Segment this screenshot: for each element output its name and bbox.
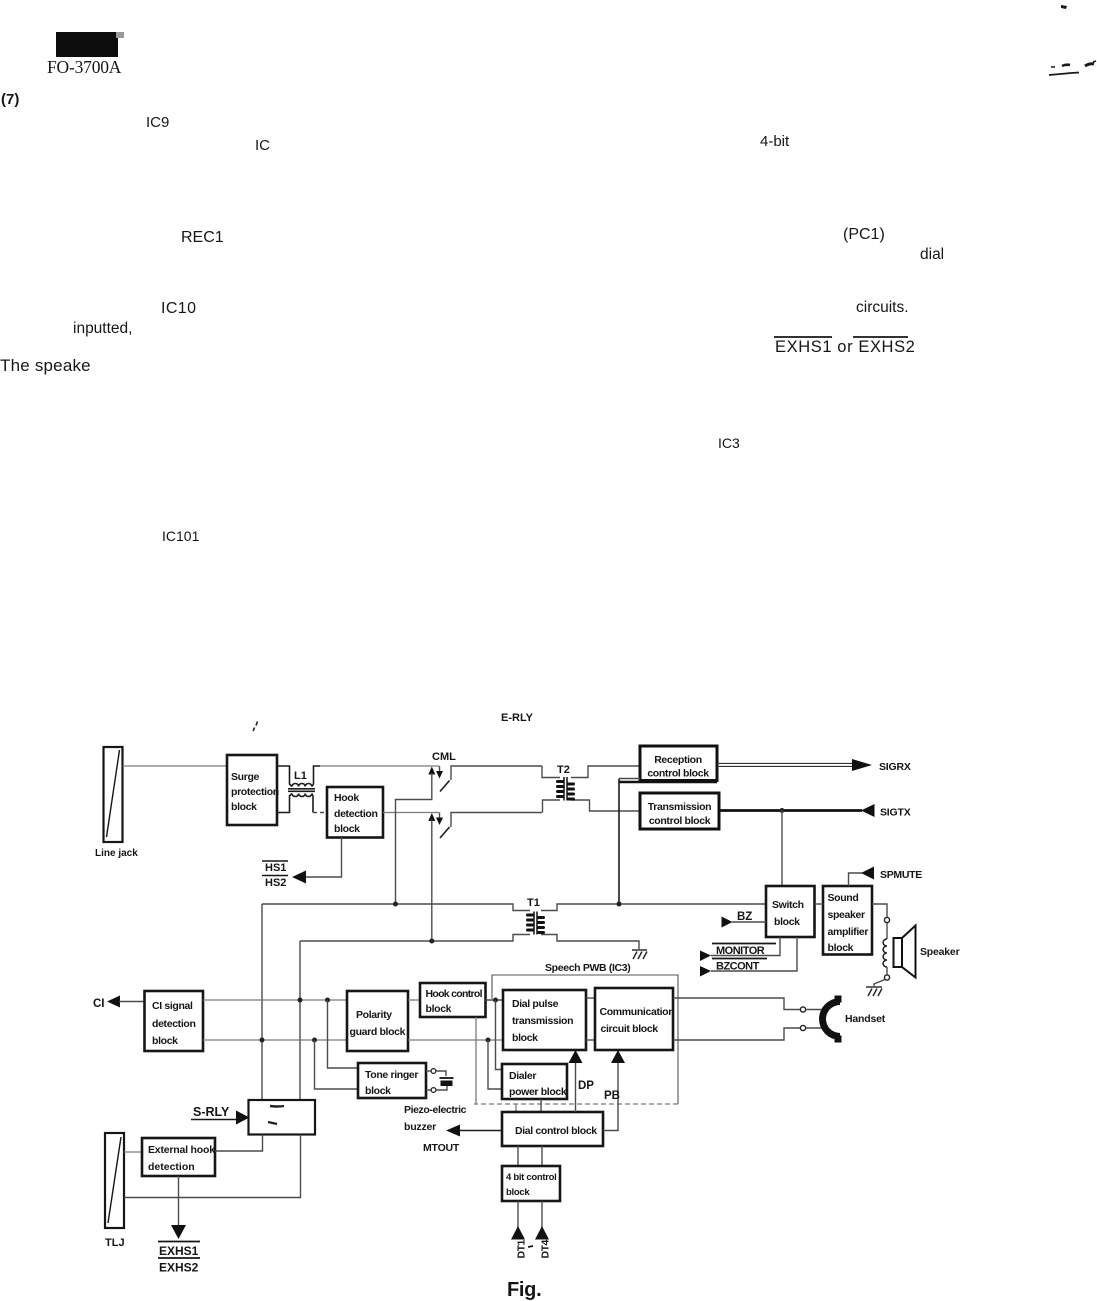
- svg-text:T1: T1: [527, 897, 540, 909]
- piezo-electric buzzer BZ1: [404, 1069, 467, 1133]
- redaction block: [56, 32, 124, 57]
- junction lower rail to tone ringer drop: [312, 1038, 317, 1043]
- svg-text:Dial pulse: Dial pulse: [512, 998, 559, 1010]
- reception control block: [640, 746, 717, 781]
- svg-text:Reception: Reception: [654, 754, 702, 766]
- dial control block: [502, 1112, 603, 1146]
- net BZCONT input: [700, 937, 797, 977]
- svg-text:4-bit: 4-bit: [760, 133, 790, 150]
- junction on SIGTX line: [780, 808, 785, 813]
- svg-text:Switch: Switch: [772, 899, 804, 911]
- svg-text:EXHS2: EXHS2: [159, 1261, 199, 1275]
- net PB dial control to communication block: [603, 1050, 625, 1131]
- line jack: [104, 747, 123, 842]
- transmission control block: [640, 793, 719, 829]
- wire vertical from reception down to T1 rail: [618, 779, 620, 905]
- svg-text:IC10: IC10: [161, 300, 196, 317]
- net DT4 input: [535, 1201, 552, 1259]
- svg-text:block: block: [828, 942, 854, 954]
- CML switch upper: [396, 766, 543, 904]
- svg-text:block: block: [506, 1187, 530, 1198]
- Speech PWB boundary: [474, 975, 678, 1104]
- svg-text:Dial control block: Dial control block: [515, 1125, 597, 1137]
- svg-text:CI: CI: [93, 998, 105, 1010]
- surge protection block: [227, 755, 279, 825]
- svg-text:IC9: IC9: [146, 114, 169, 131]
- svg-text:REC1: REC1: [181, 229, 224, 246]
- svg-text:block: block: [426, 1003, 452, 1015]
- wire upper rail CI to polarity guard: [203, 999, 347, 1001]
- net SIGRX output line: [717, 759, 911, 773]
- svg-text:HS2: HS2: [265, 877, 286, 889]
- hook detection block: [327, 787, 383, 838]
- scan speck top right: [1061, 5, 1067, 9]
- svg-text:control block: control block: [647, 768, 709, 780]
- svg-text:Fig.: Fig.: [507, 1279, 541, 1301]
- junction upper rail at relay drop: [298, 998, 303, 1003]
- svg-text:Communication: Communication: [600, 1006, 675, 1018]
- transformer T2: [542, 764, 640, 813]
- svg-text:Transmission: Transmission: [648, 801, 712, 813]
- svg-text:guard block: guard block: [350, 1026, 406, 1038]
- net DT1 input: [511, 1201, 528, 1259]
- wire hook detection to CML lower switch: [383, 812, 439, 814]
- wire surge lower rail to hook detection (dashed scan): [313, 812, 327, 814]
- tone ringer block: [358, 1063, 426, 1098]
- hook control block: [420, 983, 486, 1017]
- wire dialer power to dial control: [540, 1099, 542, 1112]
- svg-text:BZ: BZ: [737, 911, 752, 923]
- wire stub PWB boundary to dial control: [515, 1104, 517, 1112]
- svg-text:The speake: The speake: [0, 356, 91, 375]
- 4 bit control block: [502, 1146, 560, 1201]
- wire T1 bottom-left corner down to S-RLY relay: [299, 941, 301, 1100]
- transformer T1: [262, 897, 766, 949]
- wire lower rail down to tone ringer bottom input: [315, 1040, 359, 1089]
- svg-text:External hook: External hook: [148, 1144, 215, 1156]
- sound speaker amplifier block: [823, 886, 872, 955]
- svg-text:DP: DP: [578, 1080, 594, 1092]
- CML switch lower: [428, 813, 542, 942]
- junction CML lower arm on T1 bottom rail: [429, 939, 434, 944]
- svg-text:PB: PB: [604, 1090, 620, 1102]
- wire TLJ to external hook detection: [124, 1151, 142, 1153]
- svg-text:Polarity: Polarity: [356, 1009, 392, 1021]
- ground below speaker: [866, 987, 882, 996]
- svg-text:block: block: [774, 916, 800, 928]
- svg-text:(PC1): (PC1): [843, 226, 885, 243]
- handset: [819, 996, 886, 1043]
- communication circuit block: [595, 988, 674, 1050]
- wire external hook detection to relay: [215, 1135, 263, 1152]
- svg-text:block: block: [512, 1032, 538, 1044]
- wire dial pulse to communication upper: [586, 997, 595, 999]
- wire relay return loop to TLJ: [124, 1135, 301, 1198]
- ground at T1 secondary: [632, 950, 647, 959]
- telephone line jack TLJ: [105, 1133, 125, 1249]
- scan squiggle right margin: [1049, 61, 1096, 75]
- external hook detection block: [142, 1138, 215, 1176]
- dash between DT1 and DT4: [528, 1246, 533, 1247]
- wire reception bottom stub to node: [619, 779, 717, 783]
- wire polarity to hook control: [408, 999, 420, 1001]
- junction CML upper arm on T1 top rail: [393, 902, 398, 907]
- wire lower rail CI to polarity guard: [203, 1039, 347, 1041]
- switch block: [766, 886, 815, 937]
- wire upper rail down to tone ringer top input: [328, 1000, 359, 1068]
- svg-text:Sound: Sound: [828, 892, 859, 904]
- net DP dial control to dial pulse block: [569, 1050, 595, 1112]
- svg-text:circuits.: circuits.: [856, 299, 909, 316]
- svg-text:Line jack: Line jack: [95, 848, 138, 859]
- net BZ input: [722, 911, 767, 928]
- svg-text:IC3: IC3: [718, 435, 740, 451]
- net MONITOR input: [700, 937, 780, 961]
- svg-text:circuit block: circuit block: [601, 1023, 659, 1035]
- svg-text:Speech PWB (IC3): Speech PWB (IC3): [545, 962, 630, 974]
- node CI with arrow: [93, 996, 145, 1011]
- svg-text:detection: detection: [148, 1161, 195, 1173]
- wire handset ring line from communication: [673, 1025, 823, 1040]
- dialer power block: [502, 1064, 567, 1099]
- wire switch block to sound amplifier: [815, 903, 824, 905]
- svg-text:dial: dial: [920, 246, 944, 263]
- svg-text:Dialer: Dialer: [509, 1070, 536, 1082]
- svg-text:amplifier: amplifier: [828, 926, 869, 938]
- net names EXHS1 or EXHS2: [774, 337, 915, 356]
- svg-text:TLJ: TLJ: [105, 1237, 125, 1249]
- net EXHS1 / EXHS2 output: [158, 1176, 200, 1275]
- svg-text:MTOUT: MTOUT: [423, 1142, 460, 1154]
- junction upper rail to tone ringer drop: [325, 998, 330, 1003]
- svg-text:DT4: DT4: [540, 1240, 552, 1259]
- wire line jack to surge protection: [123, 765, 228, 767]
- wire dial pulse to communication lower: [586, 1039, 595, 1041]
- wire L1 to CML upper switch: [320, 765, 439, 767]
- polarity guard block: [347, 991, 408, 1051]
- svg-text:SIGTX: SIGTX: [880, 807, 911, 819]
- dial pulse transmission block: [503, 990, 586, 1050]
- svg-text:Tone ringer: Tone ringer: [365, 1069, 418, 1081]
- wire hook control to dial pulse transmission: [486, 999, 504, 1001]
- svg-text:IC: IC: [255, 137, 270, 154]
- net SPMUTE input: [849, 867, 923, 887]
- net S-RLY control: [191, 1105, 250, 1125]
- junction lower rail at relay drop: [260, 1038, 265, 1043]
- wire drop hook control rail to dialer power top input: [496, 1000, 503, 1070]
- svg-text:CI signal: CI signal: [152, 1000, 193, 1012]
- svg-text:(7): (7): [1, 91, 19, 108]
- junction hook control output: [493, 998, 498, 1003]
- svg-text:EXHS1: EXHS1: [159, 1244, 199, 1258]
- svg-text:detection: detection: [334, 808, 378, 820]
- net HS1 / HS2 with arrow from hook detection: [262, 838, 342, 890]
- wire polarity lower rail to dial pulse: [408, 1039, 503, 1041]
- svg-text:block: block: [334, 823, 360, 835]
- svg-text:buzzer: buzzer: [404, 1121, 436, 1133]
- svg-text:SIGRX: SIGRX: [879, 761, 911, 773]
- svg-text:HS1: HS1: [265, 862, 286, 874]
- svg-text:speaker: speaker: [828, 909, 866, 921]
- svg-text:block: block: [365, 1085, 391, 1097]
- wire hook control block down to PWB boundary: [475, 1017, 477, 1104]
- svg-text:detection: detection: [152, 1018, 196, 1030]
- svg-text:Piezo-electric: Piezo-electric: [404, 1104, 467, 1116]
- svg-text:inputted,: inputted,: [73, 320, 132, 337]
- svg-text:E-RLY: E-RLY: [501, 712, 534, 724]
- svg-text:Hook control: Hook control: [426, 988, 483, 1000]
- svg-text:CML: CML: [432, 751, 456, 763]
- svg-text:Speaker: Speaker: [920, 946, 960, 958]
- svg-text:DT1: DT1: [516, 1240, 528, 1259]
- speaker terminals and voice coil: [872, 904, 890, 986]
- svg-text:power block: power block: [509, 1086, 567, 1098]
- svg-text:SPMUTE: SPMUTE: [880, 869, 922, 881]
- svg-text:transmission: transmission: [512, 1015, 573, 1027]
- svg-text:block: block: [152, 1035, 178, 1047]
- junction lower rail to dialer power drop: [486, 1038, 491, 1043]
- svg-text:S-RLY: S-RLY: [193, 1105, 230, 1119]
- wire handset tip line from communication: [673, 998, 823, 1012]
- CI signal detection block: [145, 991, 204, 1051]
- net MTOUT output: [423, 1125, 502, 1155]
- wire T1 top-left corner down to S-RLY relay: [261, 904, 263, 1100]
- svg-text:protection: protection: [231, 786, 279, 798]
- junction reception arm on T1 top rail: [617, 902, 622, 907]
- net SIGTX input line: [719, 804, 911, 819]
- inductor L1: [277, 766, 320, 813]
- svg-text:block: block: [231, 801, 257, 813]
- svg-text:L1: L1: [294, 770, 307, 782]
- svg-text:Handset: Handset: [845, 1013, 886, 1025]
- svg-text:FO-3700A: FO-3700A: [47, 57, 122, 77]
- relay S-RLY box: [249, 1100, 316, 1135]
- svg-text:control block: control block: [649, 815, 711, 827]
- svg-text:T2: T2: [557, 764, 570, 776]
- wire drop lower rail to dialer power bottom input: [488, 1040, 502, 1089]
- speaker SP1: [894, 926, 960, 978]
- svg-text:4 bit control: 4 bit control: [506, 1172, 556, 1183]
- wire SIGTX junction down to switch block: [781, 811, 783, 887]
- svg-text:EXHS1 or EXHS2: EXHS1 or EXHS2: [775, 338, 915, 356]
- svg-text:IC101: IC101: [162, 528, 200, 544]
- scan mark near diagram top: [253, 722, 257, 732]
- svg-text:Surge: Surge: [231, 771, 260, 783]
- svg-text:Hook: Hook: [334, 792, 359, 804]
